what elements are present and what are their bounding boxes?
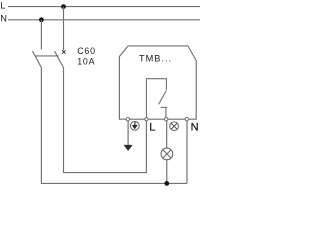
internal switch wiring from L terminal xyxy=(146,79,166,118)
terminal 3 (lamp output) xyxy=(165,118,168,121)
junction dot on N line xyxy=(39,17,44,22)
wire terminal 1 down to arrow xyxy=(127,121,129,146)
wire lamp down to N bus xyxy=(166,160,168,184)
wire L supply line xyxy=(8,6,200,8)
net label N xyxy=(0,14,7,24)
lamp E1 xyxy=(161,148,173,160)
breaker pole linkage bar xyxy=(35,55,59,57)
circuit breaker left pole blade xyxy=(33,51,42,67)
net label L xyxy=(0,0,5,10)
svg-text:N: N xyxy=(191,122,199,134)
wire terminal 3 down to lamp xyxy=(166,121,168,148)
junction dot on N bus xyxy=(164,181,169,186)
breaker x contact marker xyxy=(62,50,65,53)
device label TMB... xyxy=(139,54,172,64)
wire breaker right pole to device L terminal xyxy=(64,68,147,173)
wire from L junction down to breaker right pole xyxy=(63,7,65,51)
internal switch lower contact to lamp terminal xyxy=(161,107,168,117)
svg-text:L: L xyxy=(0,0,5,10)
internal switch blade xyxy=(159,90,167,104)
terminal symbol circled down-arrow xyxy=(130,121,139,130)
arrowhead to shutter load xyxy=(124,145,133,151)
svg-text:L: L xyxy=(149,122,155,134)
terminal label L xyxy=(149,122,155,134)
svg-text:TMB...: TMB... xyxy=(139,54,172,64)
breaker label C60 10A xyxy=(77,46,96,67)
wire N supply line xyxy=(8,19,200,21)
svg-text:N: N xyxy=(0,14,7,24)
svg-text:C60: C60 xyxy=(77,46,96,56)
terminal 4 (N) xyxy=(185,118,188,121)
terminal 2 (L) xyxy=(145,118,148,121)
terminal label N xyxy=(191,122,199,134)
junction dot on L line xyxy=(61,4,66,9)
device U1 TMB outline xyxy=(119,46,196,119)
terminal symbol circled x (lamp) xyxy=(170,122,179,131)
terminal 1 (shutter output) xyxy=(126,118,129,121)
wire terminal 4 (N) down to bus xyxy=(186,121,188,183)
wire from N junction down to breaker left pole xyxy=(40,20,42,50)
circuit breaker right pole blade xyxy=(55,51,64,67)
svg-text:10A: 10A xyxy=(77,57,95,67)
wire breaker left pole to bottom N bus xyxy=(41,68,187,184)
